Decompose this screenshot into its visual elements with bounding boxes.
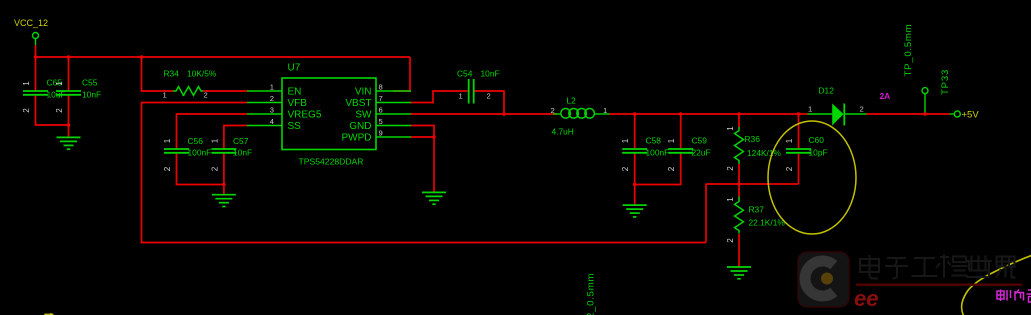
power port +5V terminal circle <box>954 111 960 117</box>
wire PWPD to ground net <box>411 136 434 138</box>
svg-text:1: 1 <box>22 81 31 86</box>
svg-text:2: 2 <box>726 238 735 243</box>
svg-text:1: 1 <box>808 105 812 114</box>
svg-text:2: 2 <box>487 92 491 101</box>
wire rail drop to VIN <box>393 57 410 91</box>
wire top VCC rail <box>36 56 411 58</box>
node SW/C54 <box>502 112 506 116</box>
capacitor C58 <box>622 149 647 153</box>
svg-text:1: 1 <box>603 106 607 115</box>
op-amp U7 box TPS54228DDAR <box>282 78 376 150</box>
svg-text:2: 2 <box>163 166 172 171</box>
svg-text:2: 2 <box>551 106 555 115</box>
node VCC rail / EN branch <box>140 55 144 59</box>
node out/C58 <box>633 112 637 116</box>
svg-text:C59: C59 <box>692 136 708 146</box>
svg-text:1: 1 <box>270 83 274 92</box>
watermark logo square <box>798 252 849 307</box>
svg-text:R37: R37 <box>749 205 765 215</box>
watermark logo C ring <box>805 261 834 296</box>
wire C58 bottom to ground <box>635 154 681 185</box>
wire C65 bottom to ground <box>36 96 69 125</box>
svg-text:ee: ee <box>854 286 878 311</box>
svg-text:C57: C57 <box>233 136 249 146</box>
svg-text:TP33: TP33 <box>940 69 951 95</box>
U7 pin stub VIN <box>376 90 411 92</box>
U7 pin stub VREG5 <box>247 113 282 115</box>
ground under U7 GND/PWPD <box>422 192 446 204</box>
watermark magenta note 删除高速 (simulated glyphs) <box>997 290 1031 303</box>
svg-text:2: 2 <box>726 166 735 171</box>
svg-text:VREG5: VREG5 <box>288 110 322 121</box>
svg-text:2: 2 <box>22 108 31 113</box>
svg-text:1: 1 <box>726 126 735 131</box>
wire VCC_12 vertical drop to C65 <box>35 45 37 90</box>
svg-text:100nF: 100nF <box>188 148 212 158</box>
svg-text:2: 2 <box>55 108 64 113</box>
svg-text:L2: L2 <box>567 96 577 106</box>
svg-text:EN: EN <box>288 87 302 98</box>
svg-text:SS: SS <box>288 121 302 132</box>
U7 pin stub SS <box>247 125 282 127</box>
svg-text:C55: C55 <box>82 78 98 88</box>
node out/C59 <box>679 112 683 116</box>
wire C59 top drop <box>680 114 682 148</box>
capacitor C59 <box>668 149 693 153</box>
node out/C60 <box>797 112 801 116</box>
svg-text:22uF: 22uF <box>692 148 711 158</box>
capacitor C60 <box>786 149 811 153</box>
svg-text:TPS54228DDAR: TPS54228DDAR <box>299 157 364 167</box>
svg-text:22.1K/1%: 22.1K/1% <box>749 218 786 228</box>
svg-text:1: 1 <box>459 92 463 101</box>
wire VREG5 to C56 <box>177 114 248 148</box>
node C58 gnd stem <box>633 183 637 187</box>
svg-text:9: 9 <box>379 129 383 138</box>
svg-text:C60: C60 <box>809 135 825 145</box>
svg-text:1: 1 <box>210 138 219 143</box>
U7 pin stub PWPD <box>376 136 411 138</box>
diode D12 <box>807 113 832 115</box>
svg-text:GND: GND <box>349 121 371 132</box>
svg-text:2A: 2A <box>880 91 891 101</box>
svg-text:+5V: +5V <box>962 110 980 121</box>
wire SS to C57 <box>224 126 247 149</box>
svg-text:VBST: VBST <box>345 98 371 109</box>
wire GND pin to ground <box>411 126 434 193</box>
wire C58 ground stem <box>634 185 636 205</box>
node VCC rail / C55 <box>67 55 71 59</box>
svg-text:100nF: 100nF <box>646 148 670 158</box>
svg-text:1: 1 <box>621 138 630 143</box>
wire R36 bottom to divider node <box>738 164 740 184</box>
svg-text:10nF: 10nF <box>82 90 101 100</box>
svg-text:2: 2 <box>667 166 676 171</box>
svg-text:2: 2 <box>621 166 630 171</box>
svg-text:R34: R34 <box>164 69 180 79</box>
ground under C58 <box>623 205 647 217</box>
wire C57 bottom to ground stem <box>223 154 225 194</box>
wire divider node row <box>706 183 799 185</box>
highlight ellipse around C60 <box>768 121 856 234</box>
capacitor C55 <box>56 91 81 95</box>
svg-text:10nF: 10nF <box>481 69 500 79</box>
test point TP33 circle <box>922 88 928 94</box>
node divider R36/R37 <box>737 182 741 186</box>
ground under C55 <box>57 137 81 149</box>
svg-text:10K/5%: 10K/5% <box>187 69 217 79</box>
svg-text:1: 1 <box>163 138 172 143</box>
ground under C57 <box>212 195 236 207</box>
node VCC rail / C65 <box>34 55 38 59</box>
wire R36 top <box>738 114 740 128</box>
test point TP33 stub <box>924 94 926 114</box>
svg-text:2: 2 <box>860 105 864 114</box>
capacitor C65 <box>23 91 48 95</box>
resistor R34 <box>173 87 203 96</box>
U7 pin stub SW <box>376 113 411 115</box>
wire divider node drop to feedback line <box>705 184 707 243</box>
svg-text:1: 1 <box>785 138 794 143</box>
wire C56 bottom <box>177 154 224 185</box>
watermark red underline <box>856 284 1022 286</box>
svg-text:C56: C56 <box>188 136 204 146</box>
svg-text:10pF: 10pF <box>809 148 828 158</box>
wire D12 cathode to +5V <box>866 113 950 115</box>
node out/TP33 <box>923 112 927 116</box>
wire R34 to EN pin <box>203 90 247 92</box>
U7 pin stub EN <box>247 90 282 92</box>
watermark chinese title (simulated glyphs) <box>860 255 1016 279</box>
svg-text:PWPD: PWPD <box>342 133 372 144</box>
svg-text:2_0.5mm: 2_0.5mm <box>586 273 597 315</box>
wire C60 bottom <box>798 154 800 184</box>
wire C60 top drop <box>798 114 800 148</box>
svg-text:C54: C54 <box>457 69 473 79</box>
svg-text:VIN: VIN <box>355 87 372 98</box>
power port VCC_12 terminal circle <box>33 33 39 39</box>
svg-text:1: 1 <box>726 197 735 202</box>
svg-text:10nF: 10nF <box>233 148 252 158</box>
svg-text:6: 6 <box>379 106 383 115</box>
svg-text:C58: C58 <box>646 136 662 146</box>
node C65/C55 ground <box>67 123 71 127</box>
svg-text:7: 7 <box>379 94 383 103</box>
svg-text:4: 4 <box>270 117 274 126</box>
svg-text:2: 2 <box>270 94 274 103</box>
svg-text:R36: R36 <box>745 134 761 144</box>
clipped yellow label fragment at bottom edge <box>44 314 53 315</box>
wire R37 top <box>738 184 740 197</box>
power port VCC_12 stub <box>35 39 37 46</box>
svg-text:SW: SW <box>355 110 372 121</box>
ground under R37 <box>727 267 751 279</box>
wire VFB to feedback divider <box>142 103 707 243</box>
resistor R37 (vertical) <box>735 197 744 234</box>
capacitor C54 (horizontal) <box>469 79 474 104</box>
wire SW net to L2 <box>411 113 557 115</box>
U7 pin stub GND <box>376 125 411 127</box>
svg-text:1: 1 <box>667 138 676 143</box>
resistor R36 (vertical) <box>735 127 744 164</box>
capacitor C56 <box>164 149 189 153</box>
svg-text:VFB: VFB <box>288 98 308 109</box>
watermark logo center dot <box>821 273 833 285</box>
svg-text:2: 2 <box>785 166 794 171</box>
svg-text:VCC_12: VCC_12 <box>14 18 48 28</box>
svg-text:5: 5 <box>379 117 383 126</box>
wire C58 top drop <box>634 114 636 148</box>
node GND/PWPD <box>432 135 436 139</box>
svg-text:8: 8 <box>379 83 383 92</box>
highlight ellipse bottom-right (clipped) <box>962 255 1031 315</box>
svg-text:2: 2 <box>210 166 219 171</box>
wire EN branch via R34 <box>142 57 174 91</box>
wire C54 pin2 down to SW net <box>474 91 504 114</box>
wire VBST to C54 pin1 <box>411 91 468 103</box>
capacitor C57 <box>211 149 236 153</box>
svg-text:3: 3 <box>270 106 274 115</box>
U7 pin stub VBST <box>376 102 411 104</box>
node out/R36 <box>737 112 741 116</box>
svg-text:4.7uH: 4.7uH <box>552 127 574 137</box>
wire +5V short green <box>950 113 955 115</box>
inductor L2 <box>553 109 610 119</box>
U7 pin stub VFB <box>247 102 282 104</box>
svg-text:124K/1%: 124K/1% <box>747 148 782 158</box>
wire C55 bottom to ground stem <box>68 96 70 137</box>
wire C55 drop <box>68 57 70 90</box>
svg-text:1: 1 <box>163 91 167 100</box>
svg-text:1: 1 <box>55 81 64 86</box>
node C56/C57 ground <box>222 183 226 187</box>
wire R37 bottom to ground <box>738 234 740 267</box>
wire L2 to output node <box>609 113 808 115</box>
svg-text:U7: U7 <box>288 63 301 74</box>
svg-text:2: 2 <box>204 91 208 100</box>
svg-text:TP_0.5mm: TP_0.5mm <box>903 24 914 77</box>
svg-text:D12: D12 <box>819 86 835 96</box>
